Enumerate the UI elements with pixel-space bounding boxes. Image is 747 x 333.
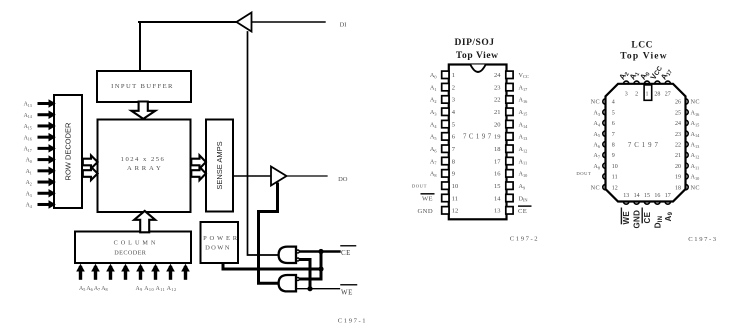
svg-text:19: 19: [494, 134, 501, 141]
svg-text:9: 9: [612, 153, 615, 159]
svg-text:POWER: POWER: [203, 235, 240, 242]
svg-text:22: 22: [675, 143, 681, 149]
svg-text:23: 23: [494, 84, 501, 91]
svg-text:A15: A15: [24, 124, 32, 130]
svg-text:CE: CE: [518, 208, 527, 215]
svg-text:8: 8: [452, 158, 455, 165]
svg-text:DECODER: DECODER: [114, 249, 146, 256]
svg-text:23: 23: [675, 132, 681, 138]
svg-text:7C197: 7C197: [463, 133, 494, 140]
svg-text:A17: A17: [24, 146, 32, 152]
svg-text:22: 22: [494, 97, 501, 104]
svg-text:C197-2: C197-2: [510, 236, 539, 243]
svg-text:5: 5: [452, 121, 455, 128]
svg-text:28: 28: [654, 92, 660, 98]
svg-text:GND: GND: [418, 208, 434, 215]
svg-text:A9 A10 A11 A12: A9 A10 A11 A12: [136, 286, 177, 292]
svg-text:27: 27: [665, 92, 671, 98]
svg-text:A5 A6 A7 A8: A5 A6 A7 A8: [79, 286, 108, 292]
svg-text:Top View: Top View: [620, 51, 668, 61]
svg-text:NC: NC: [591, 184, 600, 191]
svg-text:11: 11: [612, 175, 618, 181]
svg-text:3: 3: [452, 97, 455, 104]
svg-text:10: 10: [452, 183, 459, 190]
svg-text:2: 2: [452, 84, 455, 91]
svg-text:21: 21: [494, 109, 501, 116]
svg-text:5: 5: [612, 110, 615, 116]
svg-text:20: 20: [675, 164, 681, 170]
svg-text:7C197: 7C197: [628, 142, 661, 149]
svg-text:ARRAY: ARRAY: [127, 165, 163, 172]
svg-text:14: 14: [494, 195, 501, 202]
svg-text:8: 8: [612, 143, 615, 149]
svg-text:COLUMN: COLUMN: [114, 239, 159, 246]
svg-text:13: 13: [494, 208, 501, 215]
svg-text:A2: A2: [26, 180, 32, 186]
svg-text:DOUT: DOUT: [412, 183, 427, 188]
svg-text:DI: DI: [340, 22, 347, 29]
svg-text:1: 1: [452, 72, 455, 79]
svg-text:14: 14: [634, 193, 640, 199]
svg-text:GND: GND: [633, 210, 642, 229]
svg-text:A0: A0: [26, 158, 32, 164]
svg-text:NC: NC: [691, 99, 700, 106]
svg-text:15: 15: [644, 193, 650, 199]
svg-text:26: 26: [675, 100, 681, 106]
svg-text:SENSE AMPS: SENSE AMPS: [215, 141, 224, 189]
svg-text:A3: A3: [26, 191, 32, 197]
svg-text:3: 3: [625, 92, 628, 98]
svg-text:NC: NC: [591, 99, 600, 106]
svg-text:1: 1: [646, 92, 649, 98]
svg-text:NC: NC: [691, 184, 700, 191]
svg-text:DOUT: DOUT: [576, 171, 591, 176]
svg-text:INPUT BUFFER: INPUT BUFFER: [111, 83, 174, 90]
svg-text:A13: A13: [24, 102, 32, 108]
svg-text:WE: WE: [622, 211, 631, 225]
svg-text:2: 2: [635, 92, 638, 98]
svg-text:20: 20: [494, 121, 501, 128]
svg-text:WE: WE: [422, 196, 433, 203]
svg-text:16: 16: [494, 171, 501, 178]
svg-text:15: 15: [494, 183, 501, 190]
svg-text:13: 13: [623, 193, 629, 199]
svg-text:9: 9: [452, 171, 455, 178]
svg-text:25: 25: [675, 110, 681, 116]
svg-text:CE: CE: [341, 249, 351, 257]
svg-text:DOWN: DOWN: [205, 244, 231, 251]
svg-text:A4: A4: [26, 203, 32, 209]
svg-text:CE: CE: [643, 211, 652, 223]
svg-text:24: 24: [494, 72, 501, 79]
svg-text:C197-1: C197-1: [338, 318, 367, 325]
svg-text:16: 16: [654, 193, 660, 199]
svg-text:12: 12: [452, 208, 459, 215]
svg-text:12: 12: [612, 185, 618, 191]
svg-text:A16: A16: [24, 135, 32, 141]
svg-text:18: 18: [494, 146, 501, 153]
svg-text:WE: WE: [341, 288, 353, 296]
svg-text:A1: A1: [26, 169, 32, 175]
svg-text:C197-3: C197-3: [688, 236, 717, 243]
svg-text:17: 17: [665, 193, 671, 199]
svg-text:DIN: DIN: [519, 195, 529, 202]
svg-text:19: 19: [675, 175, 681, 181]
svg-text:Top View: Top View: [456, 51, 499, 61]
svg-text:LCC: LCC: [631, 40, 653, 50]
svg-text:17: 17: [494, 158, 501, 165]
svg-text:7: 7: [612, 132, 615, 138]
svg-text:11: 11: [452, 195, 458, 202]
svg-text:1024 x 256: 1024 x 256: [121, 156, 166, 163]
svg-text:21: 21: [675, 153, 681, 159]
svg-text:DO: DO: [338, 176, 348, 183]
svg-text:24: 24: [675, 121, 681, 127]
svg-text:DIP/SOJ: DIP/SOJ: [455, 38, 495, 48]
svg-text:ROW DECODER: ROW DECODER: [64, 122, 73, 181]
svg-text:10: 10: [612, 164, 618, 170]
svg-text:18: 18: [675, 185, 681, 191]
svg-text:A14: A14: [24, 113, 32, 119]
svg-text:6: 6: [612, 121, 615, 127]
svg-text:4: 4: [612, 100, 615, 106]
svg-text:VCC: VCC: [519, 72, 529, 79]
